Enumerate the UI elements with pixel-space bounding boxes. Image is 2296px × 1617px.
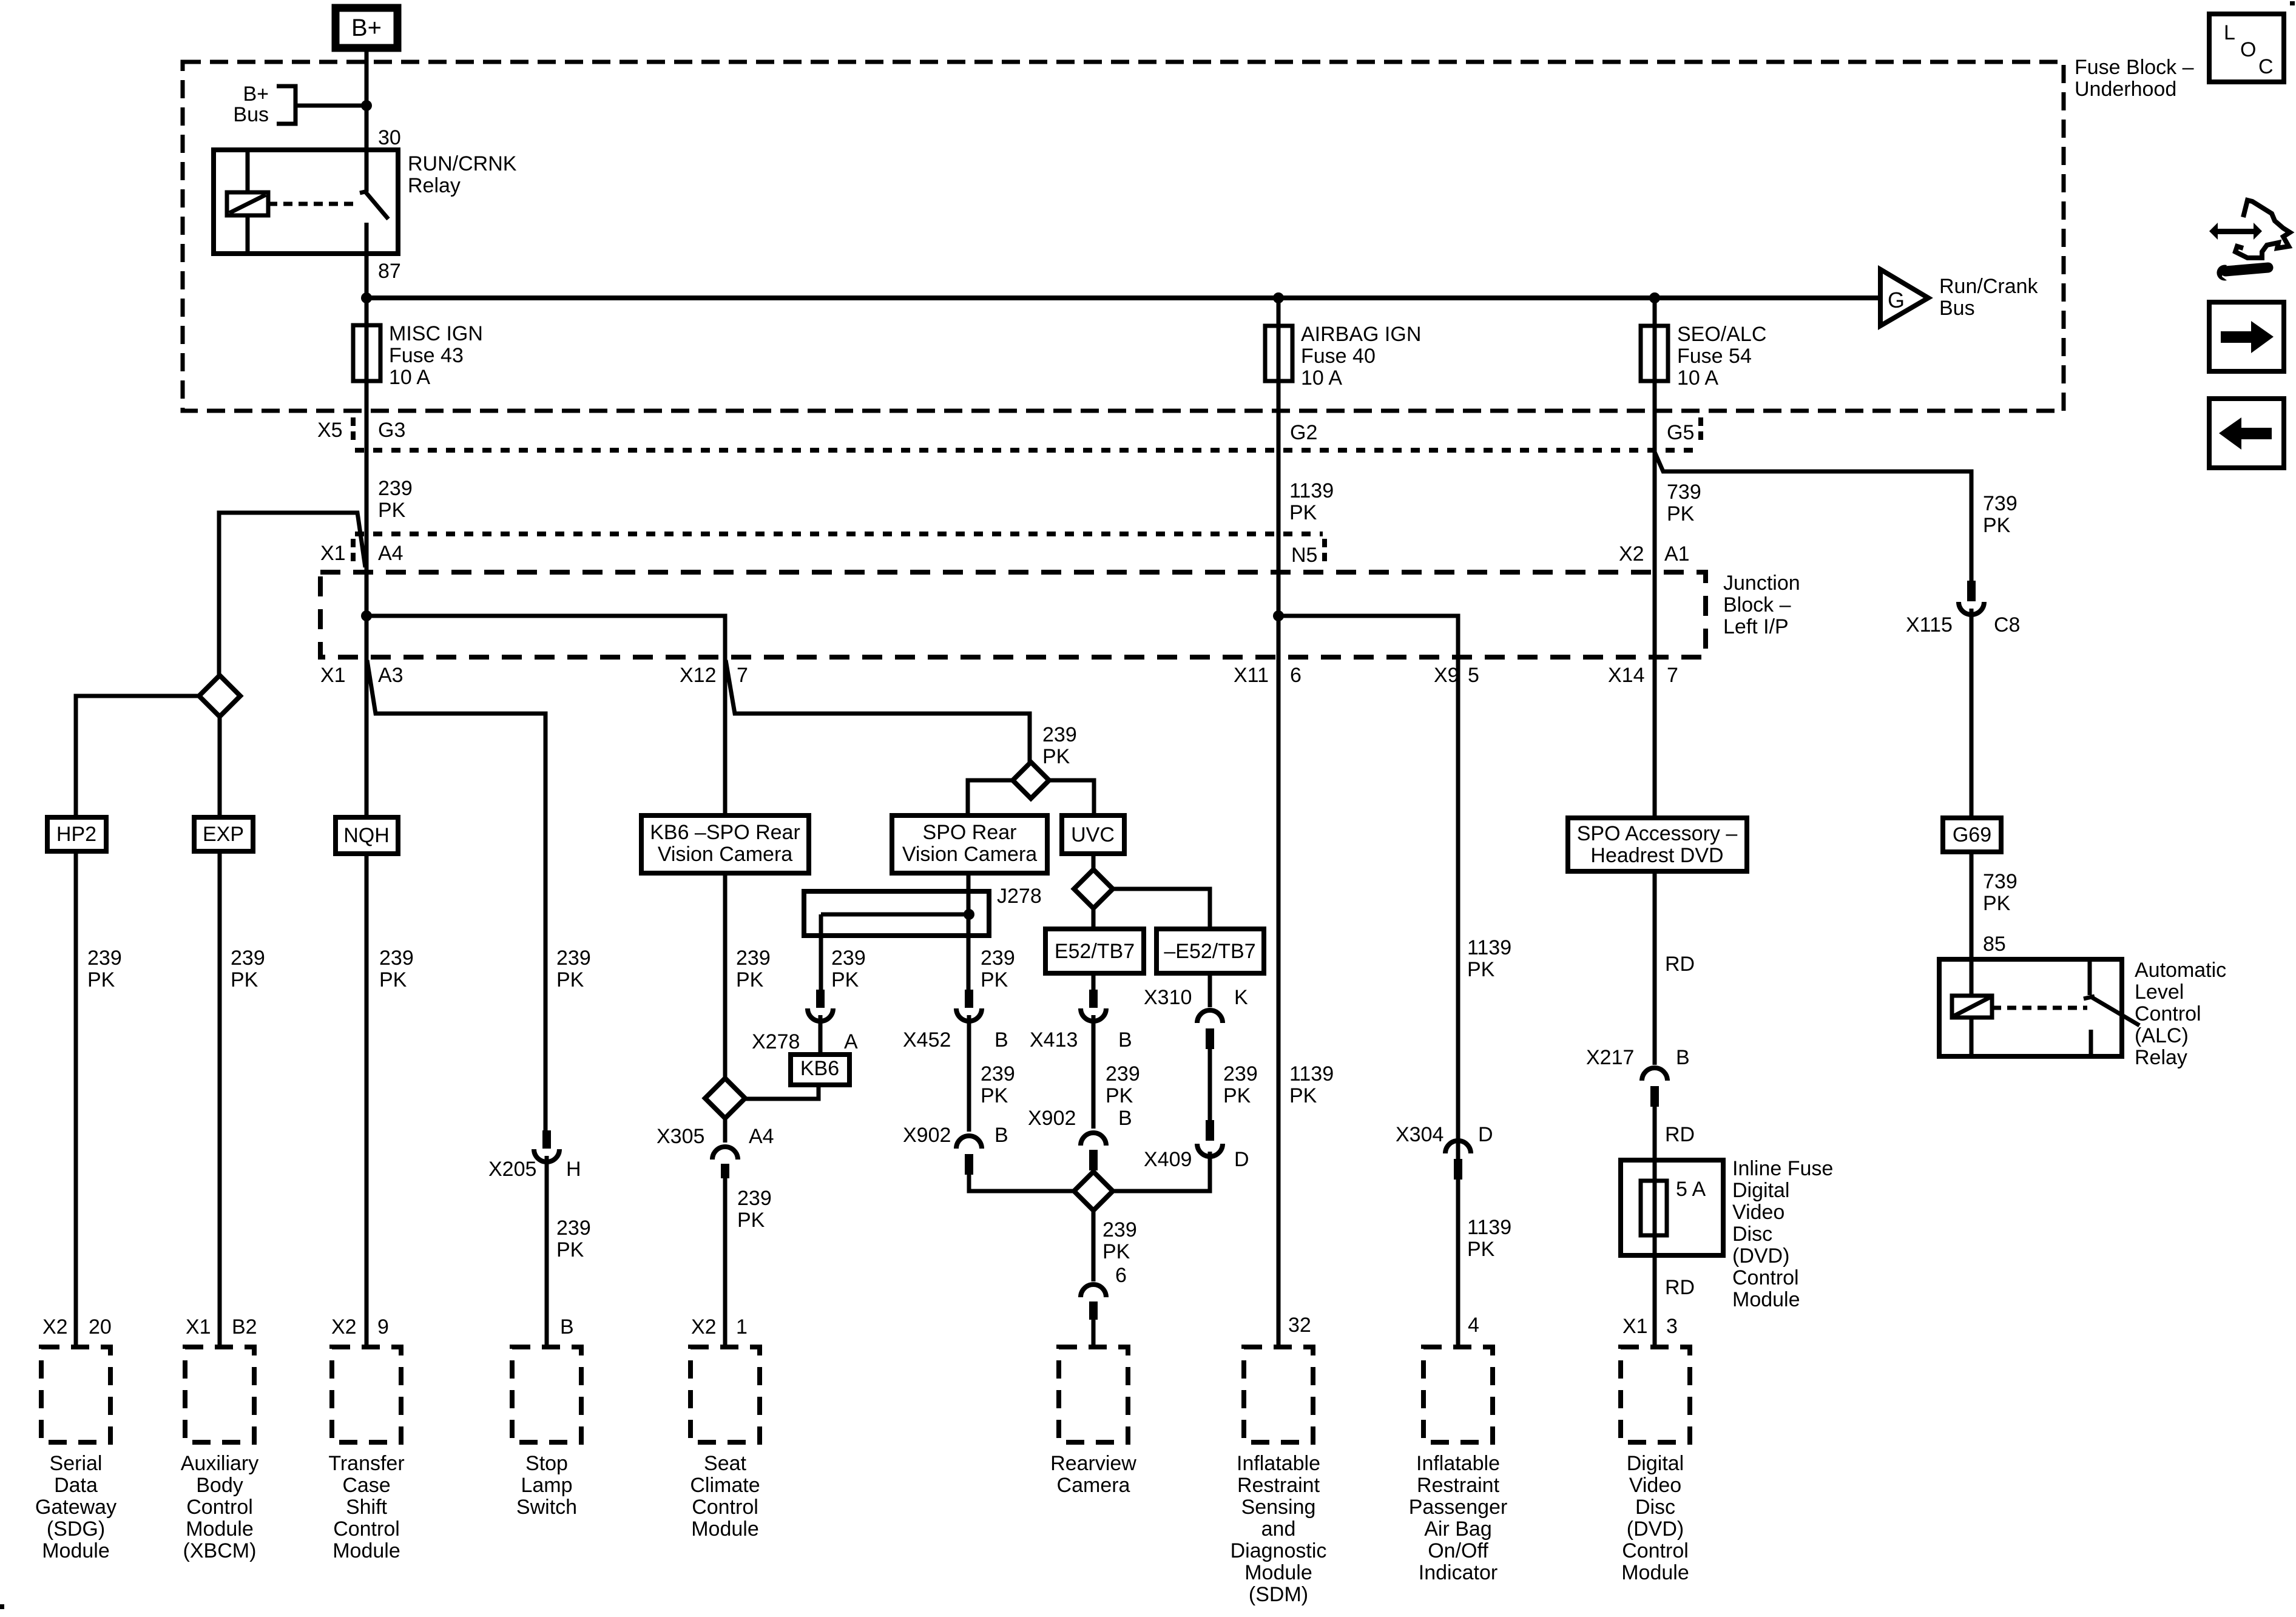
- connector mark X1/A4: [351, 539, 356, 564]
- svg-text:239: 239: [831, 947, 866, 970]
- svg-text:B: B: [560, 1315, 574, 1338]
- svg-text:30: 30: [378, 126, 401, 149]
- svg-text:X14: X14: [1608, 664, 1645, 687]
- wire E52/TB7 to X413: [1092, 973, 1096, 990]
- Run/Crank Bus off-page triangle G: [1880, 269, 1928, 326]
- RUN/CRNK relay switch contact: [365, 150, 369, 192]
- connector X305 blade: [721, 1164, 729, 1178]
- fuse F54 SEO/ALC: [1653, 298, 1657, 326]
- svg-text:PK: PK: [1042, 745, 1070, 768]
- stray dot bottom left: [0, 1604, 4, 1609]
- svg-text:10 A: 10 A: [389, 366, 430, 389]
- svg-text:Gateway: Gateway: [35, 1496, 116, 1519]
- svg-text:Junction: Junction: [1723, 572, 1800, 595]
- connector X902 socket (left): [956, 1136, 982, 1149]
- svg-text:A4: A4: [749, 1125, 774, 1148]
- connector mark N5: [1322, 539, 1327, 564]
- svg-text:739: 739: [1983, 870, 2017, 893]
- svg-text:Module: Module: [333, 1539, 400, 1562]
- svg-text:Level: Level: [2135, 981, 2184, 1004]
- wire splice to rearview connector: [1092, 1210, 1096, 1281]
- svg-text:X2: X2: [331, 1315, 357, 1338]
- node junction block tap (MISC): [361, 610, 372, 621]
- RPO box SPO Rear Vision Camera: [892, 815, 1047, 873]
- svg-text:X902: X902: [903, 1124, 951, 1147]
- connector X278 socket: [808, 1008, 833, 1021]
- wire AIRBAG vertical through junction block: [1277, 381, 1281, 1347]
- connector X217 blade: [1650, 1086, 1659, 1107]
- svg-text:Stop: Stop: [525, 1452, 568, 1475]
- connector X304 socket: [1445, 1141, 1471, 1153]
- wire X12 branch to splice: [726, 660, 1030, 762]
- svg-text:Restraint: Restraint: [1417, 1474, 1500, 1497]
- svg-text:Vision Camera: Vision Camera: [658, 843, 792, 866]
- svg-text:Digital: Digital: [1627, 1452, 1684, 1475]
- svg-text:B: B: [1118, 1107, 1132, 1130]
- wire X310 to X409: [1208, 1049, 1212, 1120]
- svg-text:Camera: Camera: [1057, 1474, 1130, 1497]
- svg-text:J278: J278: [997, 885, 1042, 908]
- wire B+ to relay pin 30: [365, 48, 369, 150]
- svg-text:Left I/P: Left I/P: [1723, 615, 1789, 638]
- svg-text:Control: Control: [1622, 1539, 1689, 1562]
- svg-text:B+: B+: [351, 15, 382, 41]
- module Digital Video Disc (DVD) Control Module: [1621, 1347, 1690, 1442]
- svg-text:X2: X2: [42, 1315, 68, 1338]
- wire X217 to inline fuse: [1653, 1107, 1657, 1181]
- svg-text:B+: B+: [243, 83, 269, 106]
- wire X413 to X902 right: [1092, 1015, 1096, 1129]
- connector X304 blade: [1454, 1159, 1462, 1180]
- svg-text:(XBCM): (XBCM): [183, 1539, 257, 1562]
- svg-text:Control: Control: [1732, 1266, 1799, 1289]
- svg-text:Serial: Serial: [50, 1452, 103, 1475]
- RPO box NQH: [336, 817, 398, 854]
- svg-text:Shift: Shift: [346, 1496, 388, 1519]
- node junction block tap (AIRBAG): [1273, 610, 1284, 621]
- svg-text:C: C: [2258, 55, 2274, 78]
- svg-text:–E52/TB7: –E52/TB7: [1164, 940, 1255, 963]
- connector X305 socket: [712, 1147, 738, 1160]
- RPO box G69: [1943, 818, 2001, 852]
- svg-text:PK: PK: [737, 1209, 765, 1232]
- ALC relay actuation dashed line: [1992, 1006, 2087, 1010]
- Junction Block - Left I/P dashed boundary: [320, 572, 1706, 657]
- connector X413 blade: [1089, 990, 1098, 1008]
- module Transfer Case Shift Control Module: [332, 1347, 401, 1442]
- connector X902 blade (left): [965, 1154, 973, 1175]
- svg-text:Diagnostic: Diagnostic: [1231, 1539, 1327, 1562]
- svg-text:5 A: 5 A: [1676, 1178, 1706, 1201]
- svg-text:Rearview: Rearview: [1050, 1452, 1136, 1475]
- wire splice to -E52/TB7: [1113, 889, 1210, 929]
- svg-text:PK: PK: [1983, 514, 2011, 537]
- svg-text:Fuse 43: Fuse 43: [389, 344, 464, 367]
- svg-text:7: 7: [737, 664, 748, 687]
- svg-text:239: 239: [1106, 1062, 1140, 1085]
- svg-text:6: 6: [1115, 1264, 1127, 1287]
- wire X409 to splice: [1113, 1152, 1210, 1191]
- wire 739 PK branch: [1655, 452, 1971, 581]
- svg-text:X1: X1: [320, 542, 346, 565]
- svg-text:4: 4: [1468, 1314, 1479, 1337]
- svg-text:Fuse Block –: Fuse Block –: [2075, 56, 2194, 79]
- svg-text:Video: Video: [1629, 1474, 1681, 1497]
- connector rearview blade: [1089, 1301, 1098, 1320]
- svg-text:239: 239: [981, 947, 1015, 970]
- svg-text:Vision Camera: Vision Camera: [902, 843, 1037, 866]
- svg-text:Fuse 54: Fuse 54: [1677, 345, 1752, 368]
- svg-text:B: B: [994, 1124, 1008, 1147]
- connector X217 socket: [1642, 1068, 1667, 1081]
- svg-text:A4: A4: [378, 542, 403, 565]
- svg-text:G5: G5: [1667, 421, 1694, 444]
- wire splice to UVC: [1049, 780, 1094, 815]
- module Stop Lamp Switch: [512, 1347, 581, 1442]
- svg-text:PK: PK: [1467, 1238, 1495, 1261]
- wire EXP to XBCM module: [218, 851, 222, 1347]
- wire X115 to G69: [1970, 609, 1974, 818]
- wire X452 to X902: [967, 1015, 971, 1132]
- svg-text:G2: G2: [1290, 421, 1317, 444]
- svg-text:PK: PK: [1467, 958, 1495, 981]
- svg-text:239: 239: [378, 477, 413, 500]
- connector mark X5: [351, 417, 356, 444]
- svg-text:85: 85: [1983, 933, 2006, 956]
- icon backward arrow box: [2209, 399, 2284, 468]
- svg-text:B2: B2: [232, 1315, 257, 1338]
- wire X12 to KB6 box: [723, 659, 728, 815]
- svg-text:(DVD): (DVD): [1732, 1244, 1789, 1268]
- svg-text:Inline Fuse: Inline Fuse: [1732, 1157, 1833, 1180]
- svg-text:B: B: [994, 1028, 1008, 1052]
- svg-text:X902: X902: [1028, 1107, 1076, 1130]
- module Rearview Camera: [1059, 1347, 1128, 1442]
- node bus-SEO/ALC junction: [1649, 292, 1660, 303]
- wire B+ Bus tap: [295, 104, 366, 108]
- svg-text:O: O: [2240, 38, 2256, 61]
- svg-text:Indicator: Indicator: [1419, 1561, 1497, 1584]
- svg-text:X9: X9: [1434, 664, 1459, 687]
- svg-text:PK: PK: [87, 968, 115, 991]
- icon forward arrow box: [2209, 302, 2284, 371]
- svg-text:X310: X310: [1144, 986, 1192, 1009]
- svg-text:739: 739: [1667, 481, 1701, 504]
- wire KB6 box to splice: [723, 873, 728, 1078]
- connector pass-through line X5/G3 G2 G5 (dotted): [355, 448, 1699, 453]
- svg-text:RD: RD: [1665, 1123, 1695, 1146]
- svg-text:239: 239: [1102, 1218, 1137, 1241]
- svg-text:1139: 1139: [1467, 936, 1511, 959]
- wire splice to EXP: [218, 717, 222, 817]
- svg-text:PK: PK: [1102, 1240, 1130, 1263]
- svg-text:Case: Case: [342, 1474, 390, 1497]
- svg-text:SPO Rear: SPO Rear: [923, 821, 1017, 844]
- stray dot top right: [2290, 1, 2295, 5]
- svg-text:Relay: Relay: [2135, 1046, 2187, 1069]
- RPO box EXP: [194, 817, 253, 851]
- connector X409 socket: [1197, 1144, 1223, 1156]
- B+ Bus tap bracket: [277, 86, 295, 124]
- wire A3 branch to Stop Lamp Switch: [367, 660, 545, 1130]
- svg-text:H: H: [566, 1158, 581, 1181]
- svg-text:Transfer: Transfer: [328, 1452, 404, 1475]
- svg-text:PK: PK: [981, 1084, 1008, 1107]
- RPO box SPO Accessory - Headrest DVD: [1568, 818, 1747, 871]
- RUN/CRNK relay coil: [246, 150, 250, 192]
- svg-text:PK: PK: [1289, 501, 1317, 524]
- svg-text:G69: G69: [1953, 823, 1991, 846]
- svg-text:Block –: Block –: [1723, 593, 1791, 616]
- svg-text:X1: X1: [1622, 1315, 1648, 1338]
- wire Run/Crank Bus: [366, 295, 1880, 300]
- connector X452 blade: [965, 990, 973, 1008]
- wire junction block internal to X9: [1278, 616, 1458, 1347]
- connector X205 blade: [542, 1130, 551, 1149]
- svg-text:PK: PK: [556, 1238, 584, 1261]
- svg-text:Underhood: Underhood: [2075, 78, 2176, 101]
- wire NQH to transfer case module: [365, 854, 369, 1347]
- wire X902 left to splice: [969, 1175, 1074, 1191]
- svg-text:239: 239: [87, 947, 122, 970]
- connector rearview socket: [1081, 1284, 1106, 1297]
- svg-text:Disc: Disc: [1732, 1223, 1772, 1246]
- svg-text:10 A: 10 A: [1301, 366, 1342, 390]
- RPO box -E52/TB7: [1156, 929, 1264, 973]
- svg-text:RD: RD: [1665, 953, 1695, 976]
- svg-text:C8: C8: [1994, 613, 2020, 636]
- svg-text:Headrest DVD: Headrest DVD: [1590, 844, 1723, 867]
- svg-text:10 A: 10 A: [1677, 366, 1718, 390]
- svg-text:B: B: [1118, 1028, 1132, 1052]
- svg-text:5: 5: [1468, 664, 1479, 687]
- svg-text:D: D: [1234, 1148, 1249, 1171]
- svg-text:1139: 1139: [1467, 1216, 1511, 1239]
- RPO box KB6 -SPO Rear Vision Camera: [641, 815, 809, 873]
- wire relay 87 to bus: [365, 254, 369, 298]
- svg-text:MISC IGN: MISC IGN: [389, 322, 483, 345]
- splice diamond (rearview camera): [1074, 1172, 1113, 1210]
- connector X902 socket (right): [1081, 1133, 1106, 1146]
- svg-text:Auxiliary: Auxiliary: [181, 1452, 258, 1475]
- svg-text:Data: Data: [54, 1474, 98, 1497]
- ALC relay switch contact: [2088, 959, 2092, 995]
- connector pass-through line X1/A4 N5 (dotted): [355, 532, 1323, 536]
- svg-text:239: 239: [379, 947, 414, 970]
- svg-text:239: 239: [556, 947, 591, 970]
- wire junction block internal to X12: [366, 616, 725, 659]
- fuse F43 MISC IGN: [365, 298, 369, 325]
- svg-text:Inflatable: Inflatable: [1237, 1452, 1320, 1475]
- module Auxiliary Body Control Module (XBCM): [185, 1347, 254, 1442]
- svg-text:Fuse 40: Fuse 40: [1301, 345, 1376, 368]
- splice pack J278: [804, 891, 989, 936]
- svg-text:(DVD): (DVD): [1627, 1517, 1684, 1541]
- RPO box UVC: [1062, 815, 1124, 854]
- splice diamond (239 PK cameras): [1013, 762, 1049, 798]
- svg-text:RUN/CRNK: RUN/CRNK: [408, 152, 517, 175]
- connector X278 blade: [816, 990, 825, 1008]
- svg-text:HP2: HP2: [56, 823, 96, 846]
- svg-text:Automatic: Automatic: [2135, 959, 2226, 982]
- module Inflatable Restraint Sensing and Diagnostic Module (SDM): [1244, 1347, 1313, 1442]
- inline fuse element 5A: [1641, 1181, 1667, 1235]
- svg-text:A1: A1: [1664, 542, 1690, 565]
- splice diamond X305 area: [705, 1078, 745, 1118]
- svg-text:Module: Module: [1244, 1561, 1312, 1584]
- svg-text:1: 1: [736, 1315, 748, 1338]
- connector X310 blade: [1206, 1028, 1214, 1049]
- svg-text:PK: PK: [556, 968, 584, 991]
- splice diamond (UVC): [1074, 869, 1113, 908]
- svg-text:A3: A3: [378, 664, 403, 687]
- wire to rearview camera module: [1092, 1320, 1096, 1347]
- svg-text:X11: X11: [1234, 664, 1269, 687]
- svg-text:N5: N5: [1291, 544, 1317, 567]
- module Inflatable Restraint Passenger Air Bag On/Off Indicator: [1423, 1347, 1493, 1442]
- svg-text:239: 239: [556, 1217, 591, 1240]
- RPO box KB6 (small): [791, 1055, 849, 1085]
- svg-text:NQH: NQH: [343, 824, 390, 847]
- wire X902 right to splice: [1092, 1170, 1096, 1173]
- svg-text:Control: Control: [2135, 1002, 2201, 1025]
- node bus-AIRBAG junction: [1273, 292, 1284, 303]
- svg-text:1139: 1139: [1289, 479, 1334, 502]
- svg-text:G3: G3: [378, 419, 405, 442]
- svg-text:239: 239: [1042, 723, 1077, 746]
- svg-text:UVC: UVC: [1071, 823, 1115, 846]
- svg-text:X304: X304: [1396, 1123, 1443, 1146]
- wire splice to E52/TB7: [1092, 908, 1096, 929]
- svg-text:(SDM): (SDM): [1249, 1583, 1308, 1606]
- wire SPO camera box to J278: [967, 873, 971, 990]
- svg-text:87: 87: [378, 260, 401, 283]
- svg-text:Run/Crank: Run/Crank: [1939, 275, 2039, 298]
- svg-text:X2: X2: [1619, 542, 1644, 565]
- svg-text:Switch: Switch: [516, 1496, 577, 1519]
- inline fuse box: [1621, 1160, 1723, 1255]
- svg-text:PK: PK: [1667, 502, 1695, 525]
- svg-text:On/Off: On/Off: [1428, 1539, 1488, 1562]
- svg-text:E52/TB7: E52/TB7: [1055, 940, 1135, 963]
- connector X452 socket: [956, 1008, 982, 1021]
- svg-text:PK: PK: [831, 968, 859, 991]
- svg-text:Bus: Bus: [233, 103, 269, 126]
- wire MISC vertical through junction block: [365, 381, 369, 659]
- fuse F40 AIRBAG IGN: [1277, 298, 1281, 326]
- svg-text:KB6 –SPO Rear: KB6 –SPO Rear: [650, 821, 800, 844]
- svg-text:Control: Control: [333, 1517, 400, 1541]
- wire X305 to seat climate module: [723, 1178, 728, 1347]
- svg-text:Passenger: Passenger: [1409, 1496, 1508, 1519]
- svg-text:Relay: Relay: [408, 174, 461, 197]
- svg-text:32: 32: [1288, 1314, 1311, 1337]
- wire splice to SPO Rear Vision Camera: [968, 780, 1013, 815]
- svg-text:739: 739: [1983, 492, 2017, 515]
- wire small KB6 to splice: [745, 1085, 819, 1099]
- svg-text:239: 239: [231, 947, 265, 970]
- node bus-MISC junction: [361, 292, 372, 303]
- svg-text:PK: PK: [736, 968, 764, 991]
- connector X902 blade (right): [1089, 1150, 1098, 1170]
- svg-text:Restraint: Restraint: [1237, 1474, 1320, 1497]
- ALC relay coil: [1970, 959, 1974, 996]
- svg-text:Disc: Disc: [1635, 1496, 1675, 1519]
- svg-text:Digital: Digital: [1732, 1179, 1789, 1202]
- svg-text:K: K: [1234, 986, 1248, 1009]
- svg-text:Module: Module: [42, 1539, 110, 1562]
- svg-text:RD: RD: [1665, 1276, 1695, 1299]
- svg-text:SPO Accessory –: SPO Accessory –: [1577, 822, 1738, 845]
- svg-text:X217: X217: [1586, 1046, 1634, 1069]
- branch wire to HP2/EXP splice: [219, 513, 365, 675]
- svg-text:PK: PK: [981, 968, 1008, 991]
- svg-text:Inflatable: Inflatable: [1416, 1452, 1500, 1475]
- svg-text:(SDG): (SDG): [47, 1517, 105, 1541]
- module Seat Climate Control Module: [690, 1347, 760, 1442]
- wire G69 to ALC relay: [1970, 852, 1974, 959]
- wire UVC box to splice: [1092, 854, 1096, 869]
- svg-text:6: 6: [1290, 664, 1302, 687]
- wire A3 to NQH: [365, 659, 369, 817]
- svg-text:A: A: [844, 1030, 858, 1053]
- svg-text:Body: Body: [196, 1474, 243, 1497]
- svg-text:X2: X2: [691, 1315, 717, 1338]
- RPO box HP2: [47, 817, 106, 851]
- relay K ALC Relay box: [1939, 959, 2122, 1056]
- svg-text:X1: X1: [320, 664, 346, 687]
- svg-text:7: 7: [1667, 664, 1678, 687]
- svg-text:Control: Control: [186, 1496, 253, 1519]
- connector X115 socket: [1959, 602, 1984, 615]
- B+ power symbol: [336, 8, 397, 48]
- svg-text:3: 3: [1666, 1315, 1678, 1338]
- svg-text:X413: X413: [1030, 1028, 1078, 1052]
- Fuse Block - Underhood dashed boundary: [183, 62, 2064, 411]
- relay K RUN/CRNK Relay box: [214, 150, 398, 254]
- wire -E52/TB7 to X310: [1208, 973, 1212, 1007]
- connector X409 blade: [1206, 1120, 1214, 1141]
- svg-text:X305: X305: [657, 1125, 704, 1148]
- svg-text:PK: PK: [378, 499, 406, 522]
- svg-text:Module: Module: [691, 1517, 759, 1541]
- wire X205 to Stop Lamp Switch: [545, 1156, 549, 1347]
- module Serial Data Gateway (SDG): [41, 1347, 110, 1442]
- svg-text:1139: 1139: [1289, 1062, 1334, 1085]
- svg-text:L: L: [2224, 21, 2235, 44]
- svg-text:X452: X452: [903, 1028, 951, 1052]
- svg-text:239: 239: [737, 1187, 772, 1210]
- svg-text:B: B: [1676, 1046, 1690, 1069]
- svg-text:EXP: EXP: [203, 823, 244, 846]
- wire splice to X305: [723, 1118, 728, 1143]
- svg-text:Sensing: Sensing: [1241, 1496, 1316, 1519]
- svg-text:Module: Module: [186, 1517, 254, 1541]
- svg-text:Bus: Bus: [1939, 297, 1975, 320]
- svg-text:PK: PK: [379, 968, 407, 991]
- svg-text:Control: Control: [692, 1496, 758, 1519]
- svg-text:(ALC): (ALC): [2135, 1024, 2189, 1047]
- svg-text:Climate: Climate: [690, 1474, 760, 1497]
- icon component boundary with wrench: [2209, 200, 2290, 280]
- svg-text:AIRBAG IGN: AIRBAG IGN: [1301, 323, 1421, 346]
- connector X310 socket: [1197, 1010, 1223, 1023]
- splice diamond (239 PK to HP2/EXP): [199, 675, 240, 717]
- wire SPO accessory to X217: [1653, 871, 1657, 1065]
- wire splice to HP2: [76, 696, 199, 817]
- RUN/CRNK relay actuation dashed line: [268, 202, 359, 206]
- svg-text:KB6: KB6: [800, 1057, 839, 1080]
